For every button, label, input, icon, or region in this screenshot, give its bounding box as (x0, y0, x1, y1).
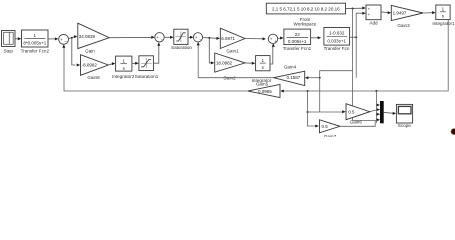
svg-text:0.5: 0.5 (322, 124, 329, 129)
transfer function Transfer Fcn (324, 28, 350, 52)
node junction after Sum3 (208, 37, 210, 39)
wire Gain1 to Sum4 (245, 37, 266, 40)
gain Gain6 0.5 (346, 104, 370, 125)
svg-text:6.5971: 6.5971 (221, 36, 235, 41)
wire Saturation1 up to Sum2 (153, 42, 160, 63)
wire H line to Gain6 input (308, 111, 343, 113)
transfer function Transfer Fcn2 (21, 30, 50, 53)
svg-text:Gain4: Gain4 (284, 64, 297, 69)
sum junction Sum2 (155, 33, 164, 43)
gain Gain 34.0839 (78, 23, 110, 53)
node junction on Sum1 output (71, 37, 73, 39)
wire Gain to Sum2 (109, 36, 155, 39)
gain Gain7 0.5 (320, 120, 341, 139)
wire Gain4 output left to Sum3 riser (198, 77, 273, 79)
svg-text:0.0965: 0.0965 (258, 89, 272, 94)
wire Gain8 to Integrator2 (108, 62, 115, 65)
sum junction Sum3 (193, 33, 202, 43)
svg-text:Transfer Fcn2: Transfer Fcn2 (21, 48, 50, 53)
svg-text:Workspace: Workspace (294, 21, 317, 26)
node junction on V4 x307 y111 (307, 111, 309, 113)
svg-text:Saturation1: Saturation1 (135, 74, 159, 79)
arrow mux input4 (376, 118, 380, 121)
svg-text:22: 22 (295, 32, 301, 37)
node junction on bottom wire x377 (375, 90, 377, 92)
svg-text:Transfer Fcn: Transfer Fcn (324, 46, 350, 51)
svg-text:Gain1: Gain1 (226, 48, 239, 53)
gain Gain1 6.5971 (220, 28, 245, 53)
node junction Gain4 input x319 (319, 77, 321, 79)
wire Gain5 output left and up into Sum1 (62, 44, 248, 91)
arrow mux input2 (377, 108, 380, 111)
wire Gain7 output right and up joining mux feed bundle (340, 121, 375, 126)
transfer function Transfer Fcn1 (283, 29, 312, 51)
wire Integrator up to Sum4 (270, 43, 275, 64)
wire Sum4 to Transfer Fcn1 (278, 37, 284, 40)
wire bundle vertical into mux (375, 91, 377, 123)
arrow mux input3 (376, 113, 380, 116)
wire Gain3 to Integrator1 (423, 11, 436, 14)
svg-text:+: + (270, 37, 273, 42)
svg-text:0.033s+1: 0.033s+1 (327, 39, 346, 44)
wire Gain2 to Integrator (245, 62, 255, 65)
svg-text:2,1 5 6.72,1 5 10 8,2 10 8,2 2: 2,1 5 6.72,1 5 10 8,2 10 8,2 20,16 (272, 6, 340, 11)
gain Gain3 1.9497 (391, 5, 423, 27)
svg-text:Integrator1: Integrator1 (432, 21, 455, 26)
wire From Workspace to Add (346, 7, 366, 10)
wire V2 vertical up to Add and down to Gain4 (356, 13, 363, 78)
wire Sum2 to Saturation (164, 36, 173, 39)
node junction on bottom wire x307 (307, 90, 309, 92)
svg-text:Gain8: Gain8 (87, 75, 100, 80)
svg-text:-8.0982: -8.0982 (82, 63, 98, 68)
svg-text:−: − (161, 38, 164, 43)
svg-text:Add: Add (369, 21, 378, 26)
arrow into Add input2 (362, 12, 366, 15)
svg-text:0.5: 0.5 (348, 110, 355, 115)
gain Gain4 0.1587 left pointing (274, 64, 305, 85)
step source block Step (2, 31, 16, 54)
wire Transfer Fcn output to V2 junction (350, 36, 357, 38)
svg-text:0.1587: 0.1587 (287, 75, 301, 80)
wire junction down to Gain8 (72, 38, 80, 67)
saturation Saturation (171, 29, 192, 50)
svg-text:1.9497: 1.9497 (393, 11, 407, 16)
wire V4 down to Gain7 input (308, 91, 317, 126)
wire Step to Transfer Fcn2 (15, 37, 21, 40)
svg-text:Gain3: Gain3 (397, 23, 410, 28)
svg-text:+: + (156, 35, 159, 40)
wire V3 hook top (320, 71, 353, 112)
svg-text:+: + (274, 39, 277, 44)
from workspace block From Workspace (266, 3, 345, 26)
integrator Integrator1 (432, 5, 455, 26)
svg-text:−: − (64, 39, 67, 44)
svg-text:+: + (60, 37, 63, 42)
wire Mux to Scope (384, 112, 396, 115)
svg-text:+: + (368, 6, 371, 11)
wire Integrator1 feedback down and left along bottom (284, 20, 449, 91)
svg-text:Gain7: Gain7 (324, 134, 337, 137)
wire Transfer Fcn2 to Sum1 (48, 37, 58, 40)
wire Sum3 to Gain1 (203, 37, 220, 40)
svg-text:Saturation: Saturation (171, 45, 192, 50)
adder Add (366, 5, 381, 26)
wire Gain4 input from V2 corner (308, 77, 320, 79)
wire Integrator2 to Saturation1 (132, 62, 139, 65)
wire Add to Gain3 (381, 11, 391, 14)
sum junction Sum4 (268, 34, 277, 44)
wire Gain6 to Mux input2 (370, 110, 377, 112)
gain Gain2 18.0982 (215, 53, 245, 80)
svg-text:Integrator2: Integrator2 (112, 74, 135, 79)
node junction V1 top (352, 8, 354, 10)
saturation Saturation1 (135, 56, 159, 79)
svg-text:Gain: Gain (85, 49, 95, 54)
svg-text:0.005s+1: 0.005s+1 (288, 39, 307, 44)
svg-text:+: + (368, 12, 371, 17)
wire junction down to Gain2 (209, 38, 214, 65)
svg-text:+: + (195, 35, 198, 40)
svg-text:Scope: Scope (398, 123, 411, 128)
integrator Integrator (252, 56, 272, 87)
svg-text:1-0.632: 1-0.632 (329, 31, 345, 36)
svg-text:−: − (199, 38, 202, 43)
wire Saturation to Sum3 (188, 36, 194, 39)
svg-text:34.0839: 34.0839 (79, 34, 96, 39)
record indicator dot bottom right (451, 129, 455, 135)
svg-text:Step: Step (3, 48, 13, 53)
svg-text:8*0.005s+1: 8*0.005s+1 (23, 40, 46, 45)
wire Sum1 to Gain (69, 35, 78, 38)
sum junction Sum1 (59, 34, 69, 44)
svg-text:Gain6: Gain6 (350, 120, 363, 125)
wire V1 vertical From Workspace signal down to Mux (353, 9, 377, 121)
svg-text:18.0982: 18.0982 (216, 61, 233, 66)
svg-text:Gain5: Gain5 (256, 82, 269, 87)
mux Mux (380, 101, 384, 123)
integrator Integrator2 (112, 56, 135, 79)
wire Gain4 feedback up into Sum3 (197, 42, 200, 78)
gain Gain5 0.0965 left pointing (248, 84, 280, 97)
node junction V2 at Transfer Fcn output (355, 36, 357, 38)
gain Gain8 -8.0982 (81, 55, 109, 80)
svg-text:Transfer Fcn1: Transfer Fcn1 (283, 46, 312, 51)
scope Scope (396, 104, 412, 128)
arrow into Gain5 0.0965 input (280, 90, 284, 93)
arrow mux input1 (376, 104, 380, 107)
wire Transfer Fcn1 to Transfer Fcn (311, 36, 322, 39)
